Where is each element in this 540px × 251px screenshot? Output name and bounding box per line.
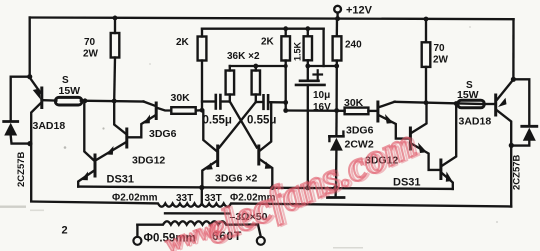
transistor 3DG6 x2 right [259,102,275,190]
capacitor 10u 16V electrolytic [296,66,331,188]
svg-text:15W: 15W [457,89,479,101]
diode 2CZ57B right [509,126,537,190]
transistor 3DG6 right driver [378,102,409,139]
wire y110 node line [286,109,345,112]
resistor 36K left [226,66,235,102]
transistor 3DG6 x2 left [199,111,218,190]
transistor 3DG12 left [97,101,127,160]
wire y103 right line [395,102,484,104]
svg-text:2CZ57B: 2CZ57B [16,151,27,187]
svg-text:0.55μ: 0.55μ [203,115,232,127]
wire right rail corner drop [512,19,514,79]
wire left emitter to rail [29,18,31,77]
node +12V terminal [334,5,372,22]
transformer core [165,212,230,215]
resistor S 15W right [457,80,494,108]
svg-text:10μ: 10μ [313,90,330,101]
watermark [162,120,426,251]
wire bottom emitter rail [78,187,453,189]
svg-text:2K: 2K [176,37,190,48]
resistor 240 [333,19,363,113]
wire emitter line left y101 [81,100,144,103]
svg-text:2: 2 [62,225,68,237]
transistor 3DG6 left driver [129,102,172,138]
transistor 3AD18 right [496,80,514,207]
wire cross-couple diagonal left-to-right [230,102,257,148]
transformer T1 secondary [133,221,264,245]
resistor 30K right [344,97,376,114]
resistor 36K right [252,66,260,102]
resistor 2K right [261,26,290,110]
diode zener 2CW2 [329,111,343,189]
transistor DS31 left [78,101,95,187]
resistor 70 2W right [422,17,449,103]
transformer T1 primary [31,188,511,207]
diode 2CZ57B left [4,122,33,188]
transistor 3DG12 right [410,103,439,170]
node right emitter [511,77,516,82]
svg-text:Φ2.02mm: Φ2.02mm [112,193,158,204]
ground [328,188,345,197]
svg-text:15W: 15W [59,85,81,97]
transistor 3AD18 left [30,78,42,200]
svg-text:36K ×2: 36K ×2 [227,51,260,62]
capacitor 0.55u right [247,95,288,126]
wire bias sub-rail y29 [202,28,324,30]
resistor S 15W left [43,75,82,105]
transistor DS31 right [441,104,456,189]
svg-text:30K: 30K [344,97,364,109]
svg-text:1.5K: 1.5K [293,41,303,61]
svg-text:2W: 2W [433,55,449,66]
wire cross-couple diagonal right-to-left [219,102,256,148]
wire 36K tops [230,65,286,67]
resistor 1.5K [293,26,313,68]
svg-text:DS31: DS31 [107,174,135,186]
svg-text:70: 70 [434,43,446,54]
wire riser y29 to y66 [322,29,324,66]
svg-text:33T: 33T [176,193,193,204]
svg-text:70: 70 [84,37,96,48]
node left emitter [27,74,32,79]
svg-text:2CZ57B: 2CZ57B [512,154,523,190]
wire to right diode [513,79,529,126]
svg-text:3AD18: 3AD18 [459,116,492,128]
resistor 70 2W left [83,16,119,101]
resistor 30K left [171,92,203,114]
svg-text:DS31: DS31 [393,177,421,189]
svg-text:+12V: +12V [346,5,373,17]
wire to left diode [11,77,30,122]
capacitor 0.55u left [202,95,232,127]
wire y66 link [308,65,337,67]
svg-text:elecfans.com: elecfans.com [201,121,425,251]
svg-text:2W: 2W [83,49,99,60]
svg-text:3DG12: 3DG12 [132,155,165,167]
svg-text:240: 240 [345,40,362,51]
svg-text:3DG6 ×2: 3DG6 ×2 [215,173,257,185]
svg-text:3AD18: 3AD18 [33,120,66,132]
svg-text:3DG6: 3DG6 [346,125,374,137]
resistor 2K left [176,29,206,111]
wire top +12V rail [30,18,514,20]
svg-text:3DG6: 3DG6 [149,128,177,140]
svg-text:2K: 2K [261,37,275,48]
svg-text:30K: 30K [171,92,191,104]
